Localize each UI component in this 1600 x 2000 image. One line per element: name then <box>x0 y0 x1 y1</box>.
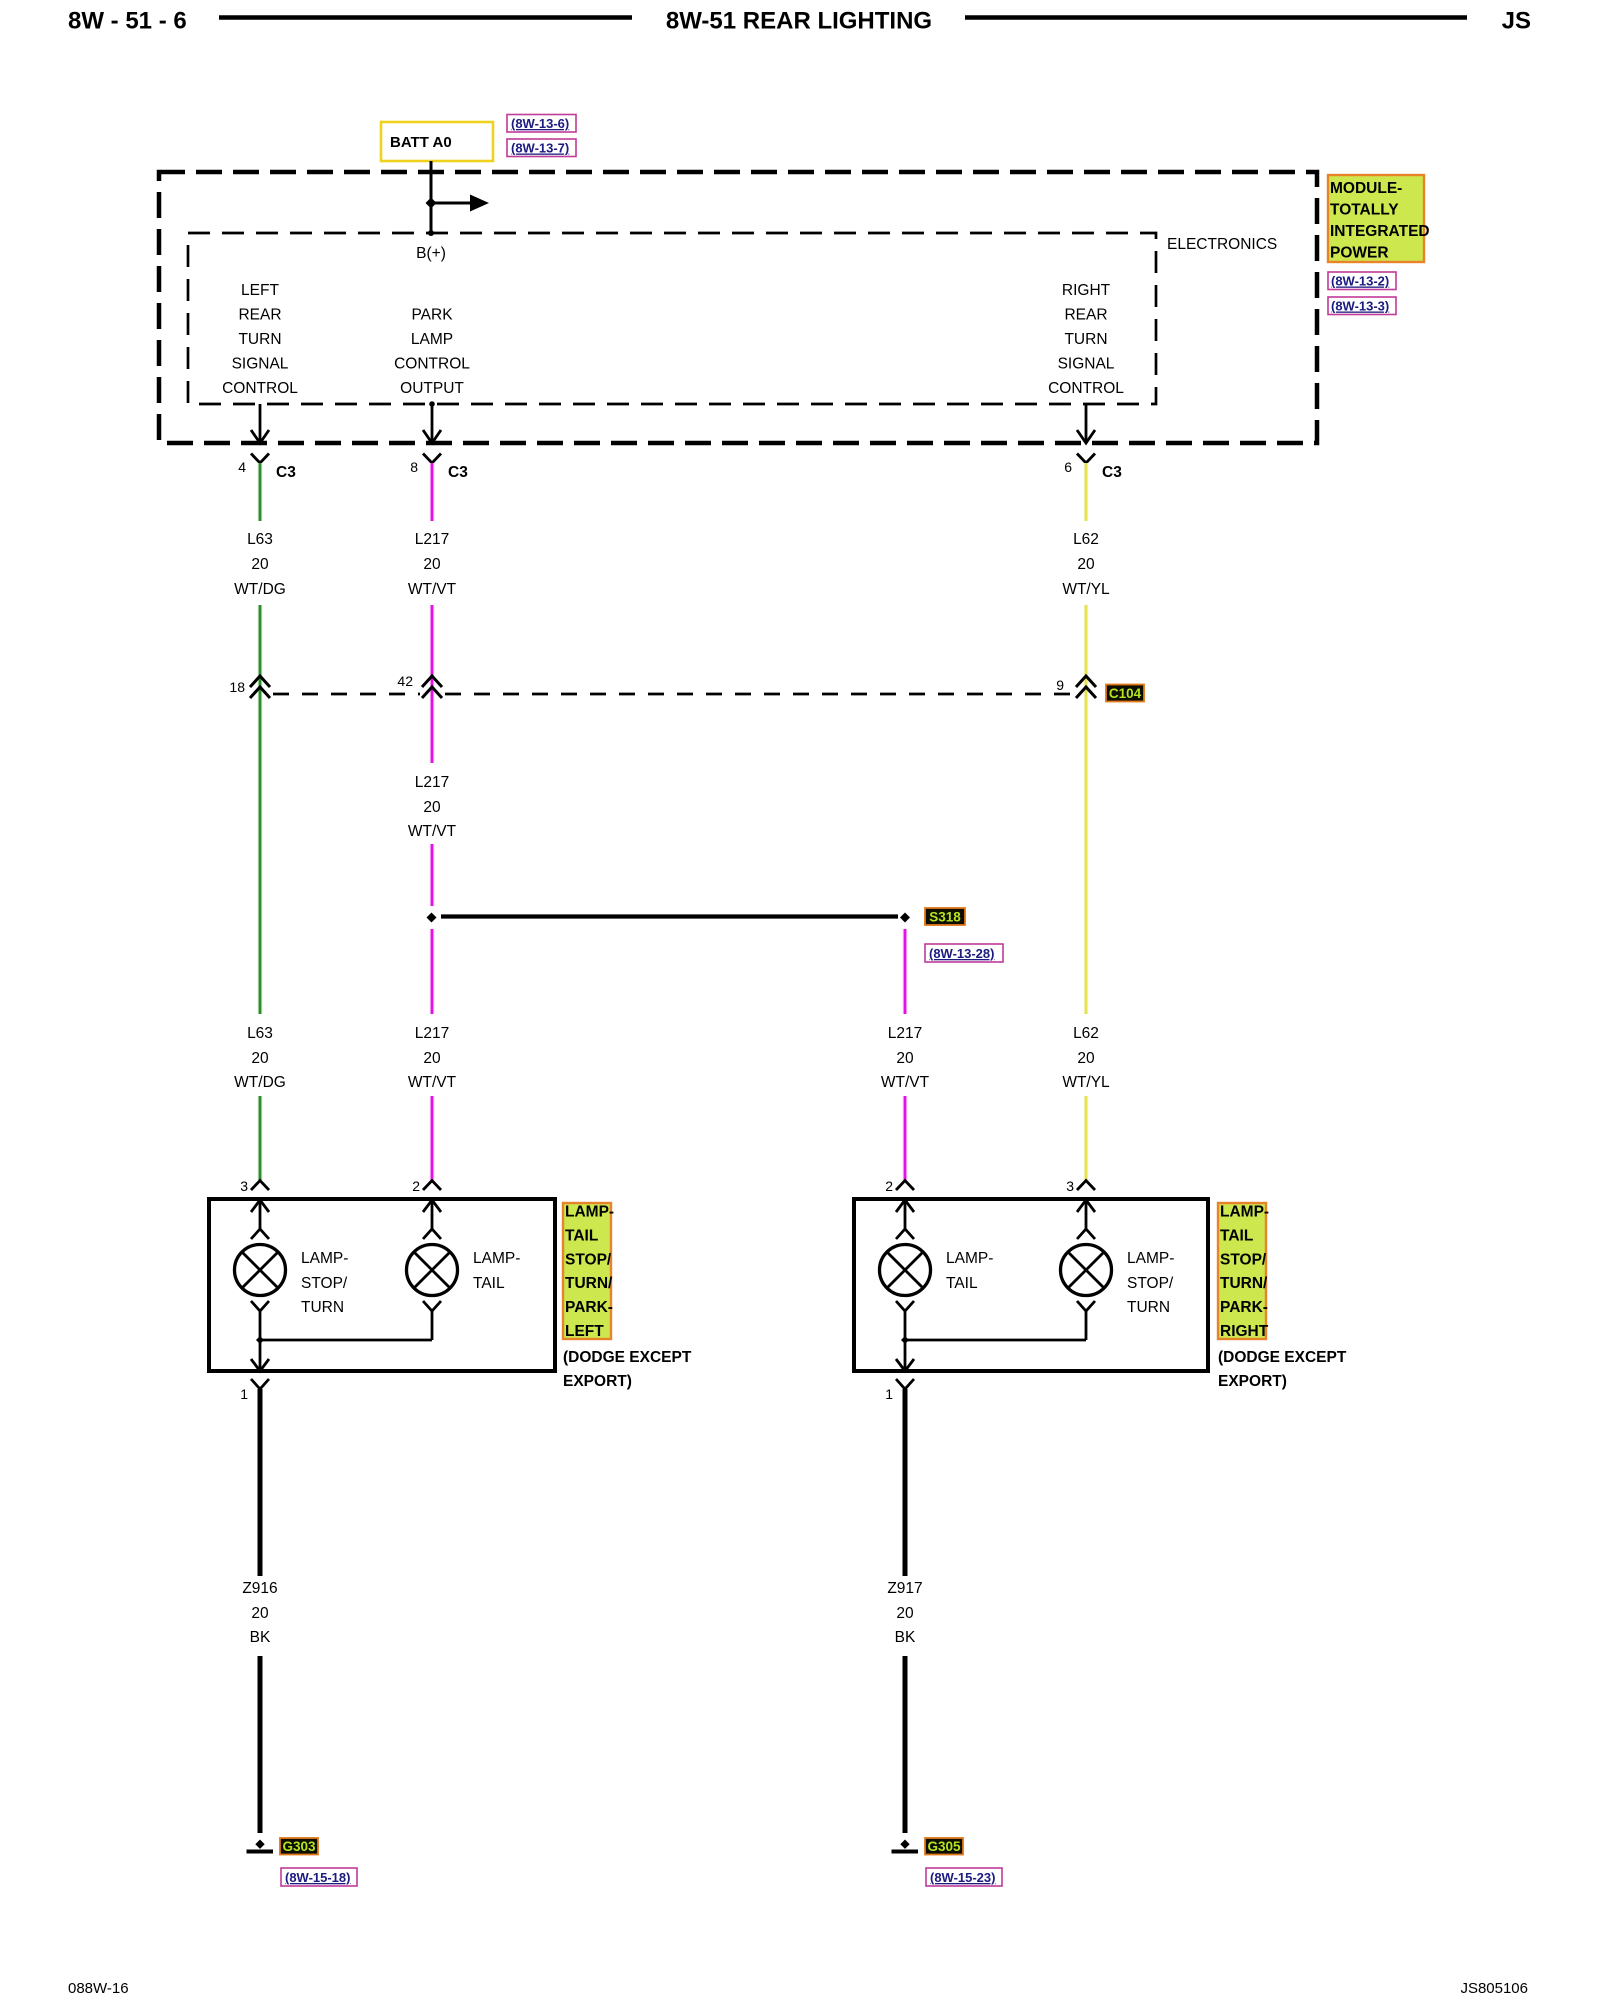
module U1 inner dashed box <box>188 233 1156 404</box>
svg-text:STOP/: STOP/ <box>565 1251 612 1268</box>
svg-text:L217: L217 <box>888 1025 922 1042</box>
svg-text:(8W-13-7): (8W-13-7) <box>511 141 569 156</box>
svg-text:WT/VT: WT/VT <box>881 1074 930 1091</box>
svg-text:20: 20 <box>1077 1050 1095 1067</box>
module output arrow middle <box>423 401 441 443</box>
svg-text:PARK-: PARK- <box>565 1299 613 1316</box>
svg-text:3: 3 <box>1066 1178 1074 1194</box>
fuse BATT A0 <box>381 122 493 161</box>
svg-text:8: 8 <box>410 459 418 475</box>
svg-text:REAR: REAR <box>1064 307 1107 324</box>
wire L217 magenta to splice <box>430 844 434 906</box>
wire Z917 lower <box>903 1656 908 1833</box>
wire label L217 20 WT/VT lower left <box>408 1025 457 1091</box>
wire L63 green upper segment <box>258 463 262 521</box>
wire from BATT A0 into module <box>430 161 433 233</box>
connector C3 pin 4 <box>238 454 296 482</box>
svg-text:20: 20 <box>251 556 269 573</box>
svg-text:C104: C104 <box>1109 686 1142 701</box>
svg-text:WT/DG: WT/DG <box>234 1074 286 1091</box>
svg-text:20: 20 <box>1077 556 1095 573</box>
wire arrow feed to right <box>431 202 472 205</box>
svg-text:SIGNAL: SIGNAL <box>1058 356 1115 373</box>
svg-text:G305: G305 <box>927 1839 961 1854</box>
svg-text:CONTROL: CONTROL <box>1048 380 1124 397</box>
wire label L63 20 WT/DG <box>234 531 286 598</box>
svg-text:(8W-13-28): (8W-13-28) <box>929 946 994 961</box>
wire Z916 lower <box>258 1656 263 1833</box>
svg-text:(8W-15-23): (8W-15-23) <box>930 1870 995 1885</box>
svg-text:LEFT: LEFT <box>241 282 279 299</box>
link 8W-13-6 <box>507 115 576 133</box>
wire L63 green mid segment <box>258 605 262 1014</box>
connector pin 3 right lamp <box>1066 1178 1095 1194</box>
connector pin 1 right lamp <box>885 1379 914 1402</box>
svg-text:TAIL: TAIL <box>1220 1227 1253 1244</box>
connector C104 chevrons pin 18 <box>229 676 270 698</box>
svg-text:(DODGE EXCEPT: (DODGE EXCEPT <box>563 1349 692 1366</box>
wire label L217 20 WT/VT lower right <box>881 1025 930 1091</box>
svg-text:CONTROL: CONTROL <box>222 380 298 397</box>
svg-text:OUTPUT: OUTPUT <box>400 380 464 397</box>
connector pin 1 left lamp <box>240 1379 269 1402</box>
svg-text:8W - 51 - 6: 8W - 51 - 6 <box>68 8 187 35</box>
label LAMP-TAIL STOP/TURN/PARK-RIGHT <box>1218 1203 1269 1340</box>
label MODULE-TOTALLY INTEGRATED POWER <box>1328 175 1430 262</box>
svg-text:LAMP-: LAMP- <box>946 1250 993 1267</box>
wire Z916 upper <box>258 1389 263 1576</box>
pin label LEFT REAR TURN SIGNAL CONTROL <box>222 282 298 397</box>
svg-text:1: 1 <box>885 1386 893 1402</box>
svg-text:SIGNAL: SIGNAL <box>232 356 289 373</box>
svg-text:STOP/: STOP/ <box>301 1275 348 1292</box>
svg-text:POWER: POWER <box>1330 245 1389 262</box>
svg-text:WT/VT: WT/VT <box>408 823 457 840</box>
link 8W-13-2 <box>1328 272 1396 290</box>
svg-text:STOP/: STOP/ <box>1220 1251 1267 1268</box>
svg-text:(8W-13-2): (8W-13-2) <box>1331 274 1389 289</box>
svg-text:REAR: REAR <box>238 307 281 324</box>
svg-text:2: 2 <box>885 1178 893 1194</box>
svg-text:INTEGRATED: INTEGRATED <box>1330 223 1430 240</box>
connector pin 3 left lamp <box>240 1178 269 1194</box>
wire L217 magenta mid segment <box>430 605 434 763</box>
svg-text:BK: BK <box>250 1629 271 1646</box>
svg-text:TURN: TURN <box>301 1299 344 1316</box>
svg-text:(DODGE EXCEPT: (DODGE EXCEPT <box>1218 1349 1347 1366</box>
svg-text:WT/VT: WT/VT <box>408 1074 457 1091</box>
svg-text:LAMP-: LAMP- <box>473 1250 520 1267</box>
label G303 <box>280 1838 318 1855</box>
svg-text:20: 20 <box>896 1605 914 1622</box>
wire L217 magenta lower segment right <box>903 1096 907 1180</box>
link 8W-13-28 <box>925 944 1003 962</box>
label DODGE EXCEPT EXPORT left <box>563 1349 692 1390</box>
svg-text:BATT A0: BATT A0 <box>390 134 452 151</box>
svg-text:ELECTRONICS: ELECTRONICS <box>1167 236 1277 253</box>
wire L62 yellow mid segment <box>1084 605 1088 1014</box>
svg-text:2: 2 <box>412 1178 420 1194</box>
svg-text:RIGHT: RIGHT <box>1220 1323 1269 1340</box>
wire label L217 20 WT/VT mid <box>408 774 457 840</box>
svg-text:18: 18 <box>229 679 245 695</box>
svg-text:8W-51 REAR LIGHTING: 8W-51 REAR LIGHTING <box>666 8 932 35</box>
svg-text:TURN/: TURN/ <box>565 1275 613 1292</box>
svg-text:TOTALLY: TOTALLY <box>1330 202 1399 219</box>
svg-text:RIGHT: RIGHT <box>1062 282 1111 299</box>
svg-text:20: 20 <box>423 799 441 816</box>
svg-text:Z917: Z917 <box>887 1580 922 1597</box>
connector C104 chevrons pin 42 <box>397 673 442 698</box>
svg-text:L217: L217 <box>415 774 449 791</box>
label LAMP-TAIL STOP/TURN/PARK-LEFT <box>563 1203 614 1340</box>
svg-text:C3: C3 <box>448 464 468 481</box>
wire join inside left lamp <box>251 1336 432 1371</box>
svg-text:9: 9 <box>1056 677 1064 693</box>
lamp L2 tail element <box>407 1200 521 1340</box>
link 8W-15-23 <box>926 1868 1002 1886</box>
wire L63 green lower segment <box>258 1096 262 1180</box>
svg-text:TAIL: TAIL <box>473 1275 505 1292</box>
lamp unit LEFT box <box>209 1199 555 1371</box>
svg-text:TURN: TURN <box>1127 1299 1170 1316</box>
svg-text:LAMP-: LAMP- <box>565 1204 614 1221</box>
svg-text:PARK-: PARK- <box>1220 1299 1268 1316</box>
svg-text:JS: JS <box>1502 8 1531 35</box>
module output arrow left <box>251 404 269 443</box>
svg-text:MODULE-: MODULE- <box>1330 180 1402 197</box>
wire join inside right lamp <box>896 1336 1086 1371</box>
svg-text:(8W-13-3): (8W-13-3) <box>1331 299 1389 314</box>
connector C104 dashed line <box>273 693 1074 696</box>
svg-text:G303: G303 <box>282 1839 316 1854</box>
svg-text:L63: L63 <box>247 531 273 548</box>
wire label L62 20 WT/YL <box>1062 531 1110 598</box>
svg-text:EXPORT): EXPORT) <box>1218 1373 1287 1390</box>
wire label Z916 20 BK <box>242 1580 277 1646</box>
link 8W-13-3 <box>1328 297 1396 315</box>
svg-text:(8W-13-6): (8W-13-6) <box>511 116 569 131</box>
connector C3 pin 8 <box>410 454 468 482</box>
svg-text:TAIL: TAIL <box>565 1227 598 1244</box>
svg-text:L63: L63 <box>247 1025 273 1042</box>
lamp L4 stop/turn element <box>1061 1200 1175 1340</box>
svg-text:LAMP: LAMP <box>411 331 453 348</box>
pin label RIGHT REAR TURN SIGNAL CONTROL <box>1048 282 1124 397</box>
svg-text:C3: C3 <box>276 464 296 481</box>
svg-text:C3: C3 <box>1102 464 1122 481</box>
svg-text:088W-16: 088W-16 <box>68 1980 129 1997</box>
svg-text:(8W-15-18): (8W-15-18) <box>285 1870 350 1885</box>
connector C3 pin 6 <box>1064 454 1122 482</box>
wire Z917 upper <box>903 1389 908 1576</box>
svg-text:BK: BK <box>895 1629 916 1646</box>
svg-text:20: 20 <box>423 1050 441 1067</box>
svg-text:JS805106: JS805106 <box>1460 1980 1528 1997</box>
ground G303 <box>247 1840 274 1852</box>
svg-text:L217: L217 <box>415 531 449 548</box>
module output arrow right <box>1077 404 1095 443</box>
svg-text:LAMP-: LAMP- <box>1127 1250 1174 1267</box>
svg-text:TURN: TURN <box>1064 331 1107 348</box>
ground G305 <box>892 1840 919 1852</box>
svg-text:WT/DG: WT/DG <box>234 581 286 598</box>
splice S318 <box>427 913 911 923</box>
pin label PARK LAMP CONTROL OUTPUT <box>394 307 470 398</box>
svg-text:TAIL: TAIL <box>946 1275 978 1292</box>
connector pin 2 right lamp <box>885 1178 914 1194</box>
svg-text:S318: S318 <box>929 910 961 925</box>
svg-text:6: 6 <box>1064 459 1072 475</box>
svg-text:CONTROL: CONTROL <box>394 356 470 373</box>
svg-text:20: 20 <box>423 556 441 573</box>
label DODGE EXCEPT EXPORT right <box>1218 1349 1347 1390</box>
svg-text:L62: L62 <box>1073 531 1099 548</box>
wire label L62 20 WT/YL lower <box>1062 1025 1110 1091</box>
svg-text:3: 3 <box>240 1178 248 1194</box>
lamp L1 stop/turn element <box>235 1200 349 1340</box>
svg-text:1: 1 <box>240 1386 248 1402</box>
wire L62 yellow lower segment <box>1084 1096 1088 1180</box>
svg-text:4: 4 <box>238 459 246 475</box>
svg-text:20: 20 <box>251 1050 269 1067</box>
wire label L63 20 WT/DG lower <box>234 1025 286 1091</box>
svg-text:L217: L217 <box>415 1025 449 1042</box>
label G305 <box>925 1838 963 1855</box>
svg-text:Z916: Z916 <box>242 1580 277 1597</box>
lamp unit RIGHT box <box>854 1199 1208 1371</box>
connector pin 2 left lamp <box>412 1178 441 1194</box>
link 8W-15-18 <box>281 1868 357 1886</box>
lamp L3 tail element <box>880 1200 994 1340</box>
svg-text:TURN/: TURN/ <box>1220 1275 1268 1292</box>
svg-text:LAMP-: LAMP- <box>1220 1204 1269 1221</box>
svg-text:STOP/: STOP/ <box>1127 1275 1174 1292</box>
wire L217 magenta splice branch down <box>903 929 907 1014</box>
wire label Z917 20 BK <box>887 1580 922 1646</box>
node B(+) junction diamond <box>426 198 437 209</box>
svg-text:WT/VT: WT/VT <box>408 581 457 598</box>
svg-text:20: 20 <box>896 1050 914 1067</box>
svg-text:PARK: PARK <box>411 307 453 324</box>
wire L217 magenta lower segment left <box>430 1096 434 1180</box>
svg-text:42: 42 <box>397 673 413 689</box>
wire L62 yellow upper segment <box>1084 463 1088 521</box>
link 8W-13-7 <box>507 139 576 157</box>
node B(+) dot on inner box <box>428 230 434 236</box>
svg-text:EXPORT): EXPORT) <box>563 1373 632 1390</box>
svg-text:L62: L62 <box>1073 1025 1099 1042</box>
svg-text:WT/YL: WT/YL <box>1062 581 1110 598</box>
svg-text:TURN: TURN <box>238 331 281 348</box>
wire L217 magenta upper segment <box>430 463 434 521</box>
module U1 TIPM outer dashed box <box>159 172 1317 443</box>
svg-text:20: 20 <box>251 1605 269 1622</box>
wire label L217 20 WT/VT <box>408 531 457 598</box>
label S318 <box>925 908 965 925</box>
connector C104 chevrons pin 9 <box>1056 676 1096 698</box>
svg-text:WT/YL: WT/YL <box>1062 1074 1110 1091</box>
svg-text:LEFT: LEFT <box>565 1323 604 1340</box>
svg-text:LAMP-: LAMP- <box>301 1250 348 1267</box>
svg-text:B(+): B(+) <box>416 245 446 262</box>
label C104 <box>1106 685 1144 702</box>
